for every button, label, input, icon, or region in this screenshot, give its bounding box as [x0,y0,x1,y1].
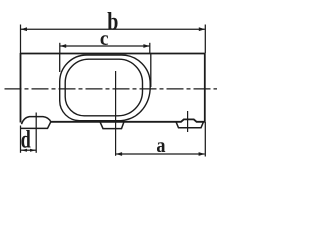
part left edge [20,53,22,123]
bottom tab center [100,122,124,129]
tab centerline / a left extension [115,71,117,156]
dimension c line [60,45,149,47]
opening inner profile [65,59,142,116]
opening outer profile [60,55,151,121]
svg-text:c: c [100,29,109,50]
b extension right [204,25,206,54]
c arrow left [60,44,66,48]
d arrow left [21,149,27,152]
dimension a line [116,153,205,155]
boss edge right [150,54,152,88]
horizontal centerline dash-dot [5,88,218,90]
d extension right [35,113,37,153]
dimension d line [21,149,36,151]
bottom edge with right bump [51,119,205,121]
part right edge [204,53,206,122]
d arrow right [30,149,36,152]
bottom tab right [176,122,204,128]
c arrow right [143,44,149,48]
b extension left [20,25,22,54]
b arrow left [21,27,27,31]
foot pad bottom left [21,122,51,129]
boss edge left [59,54,61,73]
c extension left [59,43,61,53]
a arrow right [199,152,205,156]
svg-text:d: d [21,126,31,154]
d extension left [20,126,22,153]
a extension right [204,122,206,157]
dimension b line [21,28,205,30]
svg-text:a: a [156,134,165,158]
a arrow left [116,152,122,156]
left foot hump [22,117,51,125]
svg-text:b: b [107,7,118,35]
hole centerline vertical [187,111,189,132]
part top edge [21,53,205,55]
c extension right [149,43,151,53]
b arrow right [199,27,205,31]
